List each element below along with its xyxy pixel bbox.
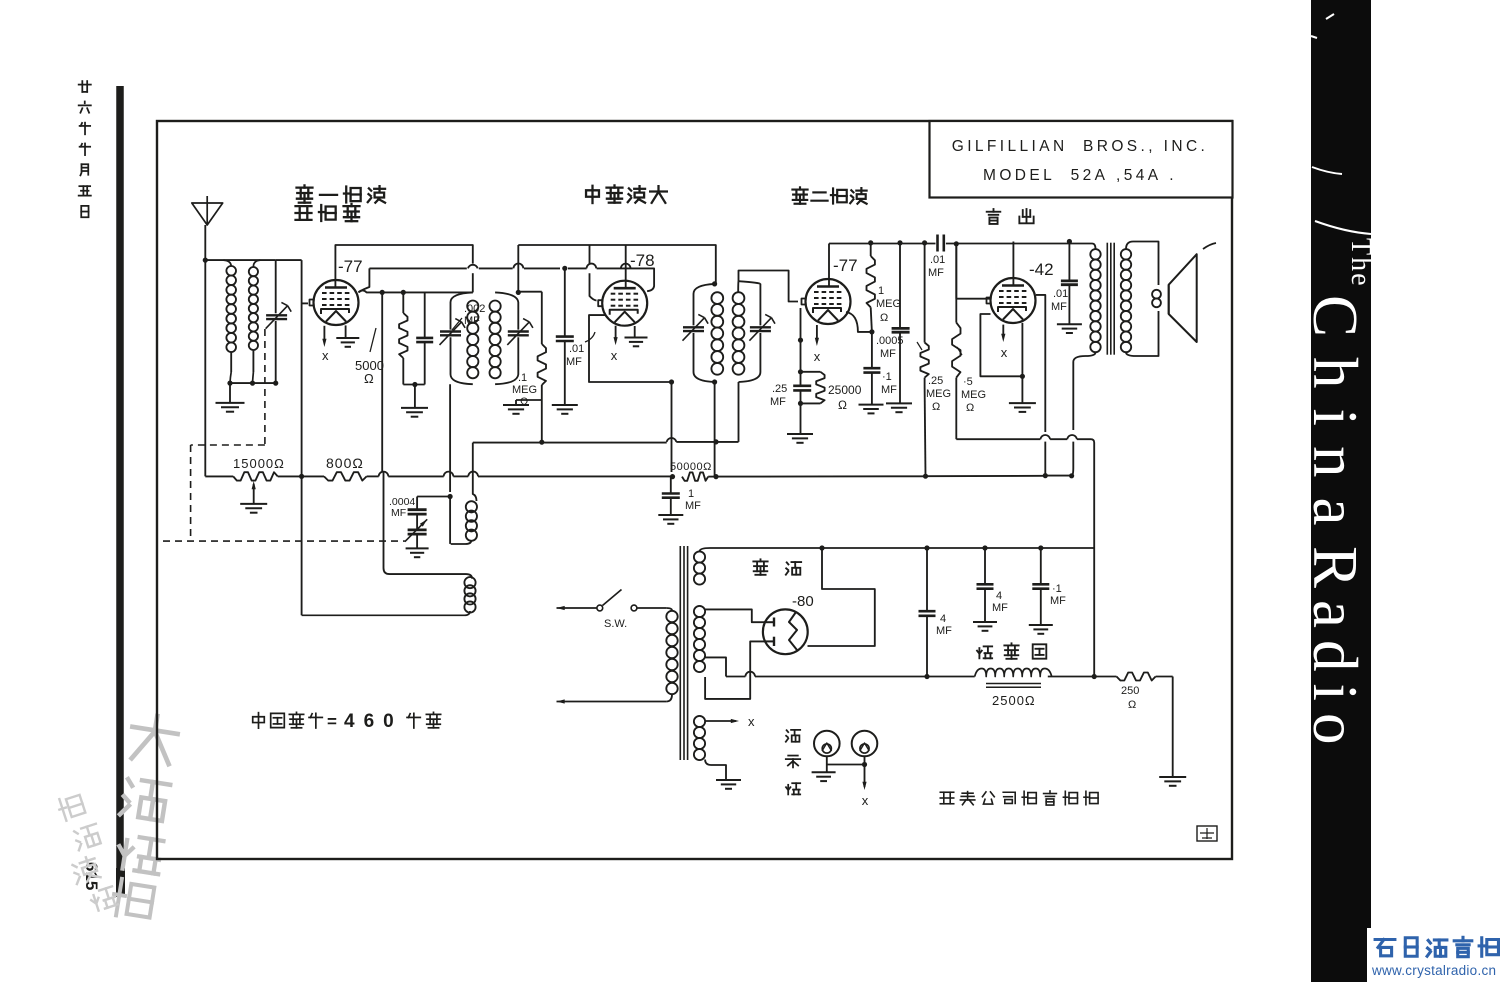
node IFT2 primary top <box>712 281 717 286</box>
wire V2 grid riser <box>590 245 597 300</box>
wire antenna lead down to bus <box>204 225 206 476</box>
ground below V1 <box>336 338 359 347</box>
svg-text:15000Ω: 15000Ω <box>233 456 285 471</box>
node bus field-cap tap <box>923 474 928 479</box>
ground below antenna coils <box>216 403 245 412</box>
wire C10 to ground <box>416 534 418 548</box>
node load top node <box>798 369 803 374</box>
wire D top right B+ run <box>829 244 1096 250</box>
svg-text:x: x <box>814 349 821 364</box>
svg-text:·1: ·1 <box>882 371 892 383</box>
resistor R7 .25 MEG <box>920 243 928 386</box>
tube V4 -42 output <box>987 278 1036 323</box>
resistor R1 5000 ohm <box>399 292 407 384</box>
svg-text:x: x <box>1001 345 1008 360</box>
wiper arrow into R3 <box>252 481 256 504</box>
tube V3 -77 second detector <box>802 279 851 324</box>
label V3 -77 <box>833 256 858 275</box>
schematic border frame <box>157 121 1232 859</box>
hop wire B over IFT1 sec riser <box>514 263 524 268</box>
wire C9 to variable cap <box>416 514 418 530</box>
label R10 250 ohm <box>1121 685 1139 711</box>
svg-text:-78: -78 <box>630 251 655 270</box>
label IF frequency = 460 kc <box>253 711 441 732</box>
node filter cap tap 2 <box>982 545 987 550</box>
IF transformer T1 primary <box>451 292 479 384</box>
svg-text:x: x <box>748 714 755 729</box>
hop bus over IFT1 lead <box>444 472 454 477</box>
label x below lamps <box>862 793 869 808</box>
wire anode 1 feed <box>705 609 764 622</box>
variable capacitor C10 oscillator padder <box>405 519 427 541</box>
svg-text:MF: MF <box>1051 301 1067 313</box>
tube V2 -78 IF amplifier <box>598 281 647 326</box>
left margin date text (vertical Chinese) <box>79 81 91 217</box>
svg-text:MEG: MEG <box>961 389 986 401</box>
svg-text:·5: ·5 <box>963 376 973 388</box>
label pilot lamps (vertical) <box>786 730 800 795</box>
node bus 50000 right <box>713 474 718 479</box>
svg-text:MF: MF <box>881 384 897 396</box>
ground below diode load <box>787 434 813 443</box>
node cathode return <box>412 382 417 387</box>
ground below V2 <box>625 338 648 347</box>
node 1MEG top <box>868 240 873 245</box>
svg-text:Radio: Radio <box>1300 546 1370 757</box>
pilot lamp 1 <box>814 731 840 757</box>
capacitor C16 4 MF <box>919 548 936 677</box>
node row OPT tap <box>1092 674 1097 679</box>
resistor R4 800 ohm <box>324 472 367 480</box>
label drawn by Ya-Mei company editorial dept <box>940 791 1098 805</box>
trimmer C4 on IFT1 secondary <box>507 319 533 345</box>
label R1 5000 ohm <box>355 328 384 386</box>
coil L2 antenna secondary <box>249 260 260 383</box>
label field coil 2500 ohm <box>992 693 1036 708</box>
hop bus over osc lead <box>468 472 478 477</box>
tube V1 -77 first detector-oscillator <box>310 280 359 325</box>
wire lamp leads <box>827 756 867 772</box>
node load bottom node <box>798 401 803 406</box>
svg-text:Ω: Ω <box>364 371 374 386</box>
wire IFT2 sec bottom riser <box>738 382 740 442</box>
label C13 .1 MF <box>881 371 897 396</box>
wire osc cap link <box>417 497 450 510</box>
label C18 .1 MF <box>1050 583 1066 607</box>
node V3 cathode node <box>869 329 874 334</box>
wire filament bottom to ground <box>705 760 726 780</box>
speaker cone <box>1169 254 1197 342</box>
resistor R10 250 ohm <box>1117 673 1156 681</box>
wire IFT1 primary bottom lead <box>448 384 453 499</box>
node IFT2 primary bottom <box>712 379 717 384</box>
watermark white box <box>1367 928 1503 982</box>
wire row to ground right <box>1156 677 1173 778</box>
svg-text:Ω: Ω <box>1128 699 1136 711</box>
hop wire B over V2 plate riser <box>621 264 631 269</box>
label R5 50000 ohm <box>670 461 712 473</box>
black magazine spine band <box>1311 0 1371 982</box>
svg-text:.25: .25 <box>772 383 787 395</box>
ground below C12 <box>886 403 912 412</box>
svg-text:460: 460 <box>344 711 403 732</box>
label rectifier <box>753 559 801 574</box>
wire V1 heater-ground lead <box>345 325 347 338</box>
wire AVC vertical from V1 <box>381 292 383 471</box>
node bus output cathode tap <box>1043 473 1048 478</box>
node filter cap tap 1 <box>924 545 929 550</box>
wire diode load vertical <box>800 340 802 372</box>
label V2 -78 <box>630 251 655 270</box>
svg-text:-77: -77 <box>338 257 363 276</box>
wire R7 bottom to bus <box>924 386 927 476</box>
svg-text:MF: MF <box>992 602 1008 614</box>
wire center tap to B- row <box>705 657 726 676</box>
wire output return row <box>956 439 1094 676</box>
label V1 -77 <box>338 257 363 276</box>
label C15 .01 MF <box>1051 288 1068 313</box>
svg-text:-80: -80 <box>792 593 814 610</box>
wire V2 cathode X lead <box>614 326 618 346</box>
svg-text:25000: 25000 <box>828 383 862 397</box>
coil L3 oscillator plate coil <box>451 472 477 544</box>
svg-text:.01: .01 <box>1053 288 1068 300</box>
transformer core T4 <box>680 546 687 760</box>
spine scratches <box>1311 14 1371 234</box>
voice coil <box>1152 290 1161 307</box>
hop row over anode2 feed <box>745 672 755 677</box>
node bus OPT return tap <box>1069 473 1074 478</box>
bus wire left section <box>205 475 233 477</box>
trimmer C6 on IFT2 primary <box>683 314 709 340</box>
label R7 .25 MEG <box>917 342 951 413</box>
label R9 25000 ohm <box>828 383 862 412</box>
wire L3 bottom to IFT lead <box>449 497 451 544</box>
label C17 4 MF <box>992 590 1008 614</box>
hop row437 over screen lead <box>1040 435 1050 439</box>
wire oscillator grid line <box>276 260 302 476</box>
node cathode box to 50000 <box>669 379 674 384</box>
node coil bottoms <box>227 381 278 386</box>
antenna <box>192 196 223 225</box>
wire screen bias row <box>473 440 739 445</box>
svg-text:x: x <box>611 348 618 363</box>
spine text China <box>1300 295 1370 546</box>
svg-text:Ω: Ω <box>932 401 940 413</box>
node C15 top <box>1067 239 1072 244</box>
resistor R2 .1 MEG <box>538 292 546 442</box>
svg-text:Ω: Ω <box>966 402 974 414</box>
svg-text:4: 4 <box>940 613 946 625</box>
node diode load top <box>798 338 803 343</box>
label R8 .5 MEG <box>957 347 986 414</box>
label C12 .0005 MF <box>876 335 904 360</box>
bus wire section 5 <box>926 475 1046 477</box>
wire coil bottoms to ground <box>230 383 276 403</box>
wire V4 cathode X lead <box>1001 325 1005 342</box>
ground below C8 <box>658 515 683 524</box>
hop wire B over V2 grid riser <box>587 264 597 269</box>
svg-text:The: The <box>1345 238 1376 288</box>
svg-text:-42: -42 <box>1029 260 1054 279</box>
node antenna-coil junction <box>203 258 208 263</box>
ground below wiper <box>240 504 267 513</box>
wire 5000-002 bottoms <box>403 385 424 408</box>
hop row437 over OPT lead <box>1067 435 1077 439</box>
svg-text:.01: .01 <box>569 343 584 355</box>
variable capacitor C1 antenna tuning <box>266 260 292 383</box>
wire anode 2 feed <box>705 641 764 699</box>
small stamp bottom right <box>1197 826 1217 841</box>
output transformer T3 primary <box>1073 249 1100 430</box>
ground below C17 <box>973 622 997 631</box>
ground below C5 <box>552 405 578 414</box>
dashed gang line horizontal to oscillator cap <box>163 540 405 542</box>
svg-text:MF: MF <box>685 500 701 512</box>
capacitor C14 .25 MF <box>793 372 811 404</box>
label C11 .01 MF <box>928 254 945 279</box>
transformer core T3 <box>1107 243 1114 355</box>
capacitor C5 .01 MF <box>556 268 574 405</box>
label C5 .01 MF <box>566 332 595 368</box>
node row cap tap <box>924 674 929 679</box>
node 5000 ohm taps <box>380 290 406 295</box>
stage label first detector-oscillator <box>296 185 386 221</box>
wire OPT return to bus <box>1072 442 1074 476</box>
svg-text:MF: MF <box>566 356 582 368</box>
wire HV top to B+ line <box>710 547 1094 549</box>
wire V3 grid stub down <box>800 308 802 340</box>
svg-text:250: 250 <box>1121 685 1139 697</box>
pilot lamp 2 <box>852 731 878 757</box>
wire V4 grid from coupling node <box>956 244 990 299</box>
label C8 1 MF <box>685 488 701 512</box>
coil L4 oscillator grid coil <box>302 472 476 616</box>
dashed gang line middle <box>191 445 265 541</box>
hop row441 over bias line <box>667 438 677 442</box>
svg-text:GILFILLIAN BROS., INC.: GILFILLIAN BROS., INC. <box>952 138 1209 155</box>
label V5 -80 <box>792 593 814 610</box>
label x below V3 <box>814 349 821 364</box>
bus wire section 2 <box>278 475 324 477</box>
label x below V4 <box>1001 345 1008 360</box>
output transformer T3 secondary <box>1121 242 1159 357</box>
svg-text:1: 1 <box>688 488 694 500</box>
wire V3 cathode to R6 bottom <box>846 312 872 332</box>
wire V4 screen to bus <box>1036 295 1045 476</box>
wire V2 plate riser <box>625 245 627 288</box>
svg-text:MF: MF <box>936 625 952 637</box>
resistor R9 25000 ohm <box>801 372 825 404</box>
left margin vertical rule <box>116 86 124 897</box>
label R6 1 MEG <box>876 285 901 324</box>
ground below filament <box>716 780 741 789</box>
wire bias line down to bus <box>671 382 673 472</box>
wire plate node run <box>382 291 473 293</box>
wire grid stub connect <box>302 302 308 304</box>
svg-text:MEG: MEG <box>876 298 901 310</box>
capacitor C8 1 MF <box>662 477 680 515</box>
wire antenna junction to coil tops <box>205 259 275 261</box>
wire load to ground <box>800 403 802 434</box>
power transformer HV winding main <box>694 606 705 672</box>
label R2 .1 MEG <box>512 372 537 408</box>
wire V4 cathode down <box>1021 323 1023 376</box>
capacitor C13 .1 MF <box>863 332 880 405</box>
svg-text:www.crystalradio.cn: www.crystalradio.cn <box>1371 963 1496 978</box>
label V4 -42 <box>1029 260 1054 279</box>
svg-text:S.W.: S.W. <box>604 618 627 630</box>
resistor R3 15000 ohm <box>233 472 278 480</box>
wire V1 plate loop to IFT1 primary <box>335 245 472 292</box>
capacitor C12 .0005 MF <box>892 243 910 404</box>
title box GILFILLIAN BROS INC MODEL 52A 54A <box>930 121 1233 198</box>
wire C top B+ run <box>518 245 716 284</box>
power transformer primary winding <box>666 608 677 702</box>
capacitor C17 4 MF <box>977 548 994 622</box>
trimmer C7 on IFT2 secondary <box>749 314 775 340</box>
bus wire section 3 <box>367 475 673 477</box>
wire R2 ground stub <box>516 400 542 405</box>
svg-text:50000Ω: 50000Ω <box>670 461 712 473</box>
svg-text:.1: .1 <box>518 372 527 384</box>
coil L1 antenna primary <box>224 260 237 383</box>
svg-text:.0005: .0005 <box>876 335 904 347</box>
label field coil <box>977 643 1046 658</box>
resistor R6 1 MEG <box>867 243 875 332</box>
svg-text:MODEL 52A ,54A .: MODEL 52A ,54A . <box>983 167 1177 184</box>
svg-text:MF: MF <box>391 507 406 519</box>
wire V1 cathode X lead <box>322 326 326 347</box>
ground below C15 <box>1057 324 1082 333</box>
watermark crystalradio Chinese <box>1375 937 1498 956</box>
ground below V4 <box>1009 403 1036 412</box>
node V4 cathode junction <box>1020 374 1025 379</box>
wire V4 plate riser <box>1012 242 1014 286</box>
capacitor C15 .01 MF output <box>1061 242 1078 325</box>
ground below R1 <box>401 408 428 417</box>
ground below C18 <box>1029 625 1053 634</box>
stage label IF amplifier <box>586 185 667 203</box>
svg-text:2500Ω: 2500Ω <box>992 693 1036 708</box>
wire AC line lower <box>557 699 667 703</box>
wire V2 cathode-bias box <box>589 315 672 382</box>
trimmer C3 on IFT1 primary <box>440 319 466 345</box>
label C16 4 MF <box>936 613 952 637</box>
resistor R5 50000 ohm <box>682 472 708 480</box>
hop bus over AVC vertical <box>379 472 389 477</box>
IF transformer T2 primary <box>694 284 724 382</box>
node rect output tap <box>819 545 824 550</box>
label C14 .25 MF <box>770 383 787 408</box>
svg-text:MF: MF <box>880 348 896 360</box>
svg-text:4: 4 <box>996 590 1002 602</box>
svg-text:=: = <box>327 712 337 731</box>
ground below C13 <box>859 405 884 414</box>
wire rectifier cathode loop <box>808 548 875 646</box>
wire V2 heater ground lead <box>634 326 636 338</box>
resistor R8 .5 MEG <box>952 244 960 439</box>
node bus 50000 left <box>670 474 675 479</box>
label C9 .0004 MF <box>389 496 415 519</box>
svg-text:MEG: MEG <box>926 388 951 400</box>
ground below lamps <box>812 772 836 781</box>
svg-text:800Ω: 800Ω <box>326 455 364 471</box>
label R3 15000 ohm <box>233 456 285 471</box>
svg-text:MF: MF <box>1050 595 1066 607</box>
svg-text:x: x <box>862 793 869 808</box>
ground near R2 <box>503 405 529 414</box>
svg-text:.25: .25 <box>928 375 943 387</box>
label R4 800 ohm <box>326 455 364 471</box>
wire V3 plate riser <box>828 244 830 287</box>
label C2 .002 MF <box>452 303 485 330</box>
stage label output <box>987 209 1034 224</box>
capacitor C18 .1 MF <box>1032 548 1049 625</box>
capacitor C11 .01 MF coupling <box>938 235 944 252</box>
IF transformer T1 secondary <box>490 292 519 384</box>
dashed gang line vertical from C1 <box>264 329 266 445</box>
bus wire section 4 <box>708 475 925 477</box>
capacitor C2 .002 MF <box>416 292 433 384</box>
power transformer HV winding top <box>694 548 710 585</box>
bus wire section 6 <box>1045 475 1071 477</box>
spine text The <box>1345 238 1376 288</box>
wire V1 side to plate node <box>359 290 383 292</box>
node 0005 top <box>897 240 902 245</box>
wire B minus row <box>726 676 1117 678</box>
grey handwritten watermark (small) <box>50 791 121 915</box>
svg-text:x: x <box>322 348 329 363</box>
spine text Radio <box>1300 546 1370 757</box>
tube V5 -80 rectifier <box>763 609 808 654</box>
node wire B .01MF tap <box>562 266 567 271</box>
node filter cap tap 3 <box>1038 545 1043 550</box>
ground right end <box>1159 777 1186 786</box>
wire V4 grid-return box <box>980 314 1022 376</box>
node 25MEG top <box>922 240 927 245</box>
wire IFT2 primary bottom riser <box>713 382 718 477</box>
svg-text:MEG: MEG <box>512 384 537 396</box>
label x below V2 <box>611 348 618 363</box>
capacitor C9 .0004 MF <box>408 510 427 514</box>
wire osc line to coil return <box>301 476 303 615</box>
svg-text:·1: ·1 <box>1052 583 1062 595</box>
wire filament top X arrow <box>705 714 755 729</box>
wire V3 X lead <box>815 325 819 346</box>
node IFT1 secondary top <box>516 290 521 295</box>
wire grid line y268 (wire B) <box>358 268 654 292</box>
IF transformer T2 secondary <box>733 281 761 382</box>
label x below V1 <box>322 348 329 363</box>
switch SW <box>557 590 667 611</box>
page number 615 (rotated) <box>82 862 101 890</box>
svg-text:Ω: Ω <box>520 396 528 408</box>
grey handwritten watermark (large) <box>103 712 183 920</box>
svg-text:MF: MF <box>928 267 944 279</box>
field coil L5 <box>975 669 1052 688</box>
wire second det grid path <box>739 271 799 302</box>
label SW <box>604 618 627 630</box>
wire V4 cathode to ground <box>1021 376 1023 403</box>
svg-text:-77: -77 <box>833 256 858 275</box>
wire row441 down to osc coil <box>472 443 474 472</box>
wire grid tap from sec top <box>518 291 542 293</box>
node osc line bus junction <box>299 474 304 479</box>
svg-text:Ω: Ω <box>880 312 888 324</box>
wire lamp X lead <box>862 765 866 791</box>
svg-text:.01: .01 <box>930 254 945 266</box>
